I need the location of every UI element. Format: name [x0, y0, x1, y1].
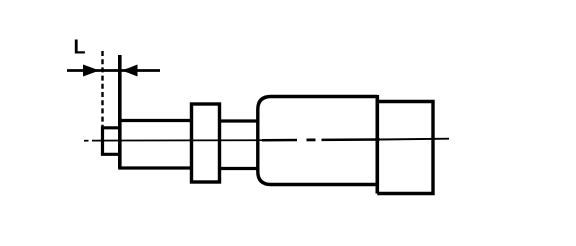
svg-text:L: L: [74, 37, 86, 59]
